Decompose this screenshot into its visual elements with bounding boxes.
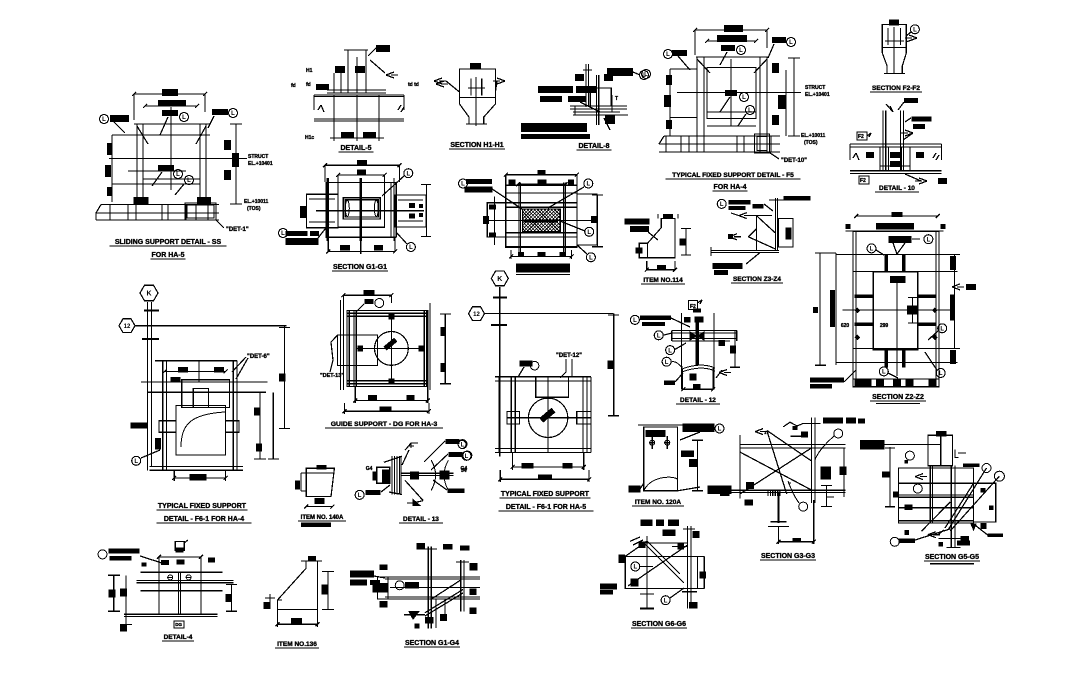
svg-text:L: L [939, 371, 943, 377]
svg-text:"DET-13": "DET-13" [320, 373, 344, 379]
svg-text:FOR HA-5: FOR HA-5 [151, 252, 184, 259]
svg-text:L: L [406, 171, 410, 177]
svg-text:L: L [586, 182, 590, 188]
svg-text:L: L [465, 454, 469, 460]
svg-text:DETAIL-8: DETAIL-8 [579, 143, 610, 150]
svg-text:FOR HA-4: FOR HA-4 [713, 184, 746, 191]
svg-text:L: L [187, 178, 191, 184]
svg-text:L: L [742, 95, 746, 101]
svg-text:12: 12 [124, 324, 131, 330]
svg-text:TYPICAL FIXED SUPPORT: TYPICAL FIXED SUPPORT [158, 503, 247, 510]
svg-text:"DET-1": "DET-1" [226, 227, 249, 233]
section G2-G2 body [459, 170, 604, 262]
svg-text:L: L [718, 427, 722, 433]
detail-10 body [850, 98, 947, 184]
item 140A body [295, 465, 334, 509]
detail-4 body [98, 540, 237, 632]
svg-text:L: L [668, 348, 672, 354]
svg-text:DR: DR [690, 375, 697, 380]
section G3-G3 body [720, 418, 865, 544]
svg-text:L: L [176, 172, 180, 178]
svg-text:299: 299 [880, 323, 889, 329]
svg-text:"DET-6": "DET-6" [247, 354, 270, 360]
svg-text:DETAIL-4: DETAIL-4 [164, 634, 193, 641]
svg-text:L: L [666, 52, 670, 58]
svg-text:DETAIL - 12: DETAIL - 12 [680, 397, 716, 404]
section G6-G6 body [600, 519, 706, 608]
svg-text:DG: DG [175, 622, 182, 627]
section Z3-Z4 body [711, 196, 810, 275]
svg-text:G4: G4 [461, 466, 468, 472]
detail-5 body [291, 45, 448, 141]
svg-text:L: L [789, 40, 793, 46]
svg-text:ITEM NO. 140A: ITEM NO. 140A [301, 515, 344, 521]
section H1-H1 body [434, 63, 505, 126]
detail-8 body [521, 64, 649, 139]
svg-text:ITEM NO. 120A: ITEM NO. 120A [635, 499, 682, 506]
svg-text:ITEM NO.136: ITEM NO.136 [277, 641, 317, 648]
svg-text:fd: fd [306, 82, 311, 88]
svg-text:L: L [633, 318, 637, 324]
svg-text:12: 12 [473, 312, 480, 318]
svg-text:L: L [461, 442, 465, 448]
item 136 body [264, 556, 334, 627]
svg-text:L: L [231, 111, 235, 117]
svg-text:SECTION Z2-Z2: SECTION Z2-Z2 [872, 394, 924, 401]
svg-text:ITEM NO.114: ITEM NO.114 [643, 277, 683, 284]
section G1-G1 body [279, 160, 432, 254]
svg-text:SLIDING SUPPORT DETAIL - SS: SLIDING SUPPORT DETAIL - SS [115, 239, 222, 246]
svg-text:L: L [633, 565, 637, 571]
svg-text:L: L [657, 334, 661, 340]
svg-text:L: L [102, 117, 106, 123]
svg-text:DETAIL - 13: DETAIL - 13 [403, 516, 439, 523]
fixed support F6-1 HA-4 body [119, 285, 290, 481]
title: SLIDING SUPPORT DETAIL - SS [96, 89, 273, 233]
svg-text:SECTION G1-G4: SECTION G1-G4 [405, 640, 459, 647]
svg-text:F2: F2 [858, 134, 864, 140]
svg-text:K: K [497, 276, 502, 283]
svg-text:DETAIL - F6-1 FOR HA-4: DETAIL - F6-1 FOR HA-4 [164, 516, 244, 523]
svg-text:L: L [182, 115, 186, 121]
item 120A body [629, 424, 732, 495]
svg-text:EL.+10011: EL.+10011 [801, 133, 826, 139]
svg-text:L: L [281, 231, 285, 237]
section G1-G4 body [350, 543, 480, 628]
svg-text:L: L [587, 230, 591, 236]
svg-text:SECTION F2-F2: SECTION F2-F2 [872, 85, 920, 92]
svg-text:L: L [664, 598, 668, 604]
svg-text:L: L [644, 72, 648, 78]
svg-text:L: L [739, 48, 743, 54]
svg-text:DETAIL - 10: DETAIL - 10 [879, 185, 915, 192]
svg-text:L: L [913, 28, 917, 34]
svg-text:L: L [940, 327, 944, 333]
svg-text:"DET-10": "DET-10" [781, 158, 807, 164]
svg-text:L: L [358, 493, 362, 499]
svg-text:EL.+10011: EL.+10011 [244, 199, 269, 205]
svg-text:T: T [615, 96, 618, 102]
svg-text:STRUCT: STRUCT [805, 85, 825, 91]
svg-text:STRUCT: STRUCT [248, 154, 268, 160]
svg-text:EL.+10401: EL.+10401 [805, 92, 830, 98]
svg-text:SECTION H1-H1: SECTION H1-H1 [450, 142, 503, 149]
svg-text:L: L [665, 360, 669, 366]
svg-text:DETAIL-5: DETAIL-5 [341, 145, 372, 152]
svg-text:K: K [146, 291, 151, 298]
section F2-F2 body [882, 20, 919, 75]
svg-text:SECTION G5-G5: SECTION G5-G5 [925, 554, 979, 561]
svg-text:SECTION G6-G6: SECTION G6-G6 [632, 621, 686, 628]
fixed support F6-1 HA-5 body [458, 271, 619, 482]
svg-text:L: L [882, 370, 886, 376]
svg-text:SECTION Z3-Z4: SECTION Z3-Z4 [733, 276, 781, 283]
svg-text:TYPICAL FIXED SUPPORT DETAIL -: TYPICAL FIXED SUPPORT DETAIL - F5 [672, 172, 794, 179]
detail-13 body [355, 439, 471, 506]
svg-text:620: 620 [841, 323, 850, 329]
svg-text:(TOS): (TOS) [804, 140, 818, 146]
detail-12 body [630, 300, 740, 391]
guide support DG body [320, 290, 451, 414]
item no.114 body [625, 214, 691, 272]
svg-text:L: L [870, 247, 874, 253]
svg-text:td td: td td [408, 82, 419, 88]
svg-text:L: L [134, 459, 138, 465]
section G5-G5 body [860, 431, 1004, 547]
svg-text:DETAIL - F6-1 FOR HA-5: DETAIL - F6-1 FOR HA-5 [506, 504, 586, 511]
svg-text:SECTION G2-G2: SECTION G2-G2 [516, 266, 570, 273]
section Z2-Z2 body [810, 212, 976, 389]
title text SECTION G2-G2 (highlighted) [516, 264, 570, 273]
svg-text:SECTION G3-G3: SECTION G3-G3 [761, 553, 815, 560]
svg-text:L: L [927, 237, 931, 243]
svg-text:L: L [748, 108, 752, 114]
svg-text:"DET-12": "DET-12" [556, 353, 582, 359]
svg-text:fd: fd [291, 83, 296, 89]
svg-text:L: L [720, 202, 724, 208]
svg-text:GUIDE SUPPORT - DG FOR HA-3: GUIDE SUPPORT - DG FOR HA-3 [331, 421, 438, 428]
svg-text:H1: H1 [306, 68, 313, 74]
svg-text:L: L [409, 245, 413, 251]
svg-text:L: L [589, 256, 593, 262]
svg-text:H1c: H1c [305, 135, 314, 141]
fixed support F5 body [642, 25, 830, 164]
svg-text:SECTION G1-G1: SECTION G1-G1 [333, 264, 387, 271]
svg-text:(TOS): (TOS) [247, 206, 261, 212]
svg-text:TYPICAL FIXED SUPPORT: TYPICAL FIXED SUPPORT [501, 491, 590, 498]
svg-text:G4: G4 [366, 466, 373, 472]
svg-text:F2: F2 [860, 178, 866, 184]
svg-text:EL.+10401: EL.+10401 [248, 161, 273, 167]
